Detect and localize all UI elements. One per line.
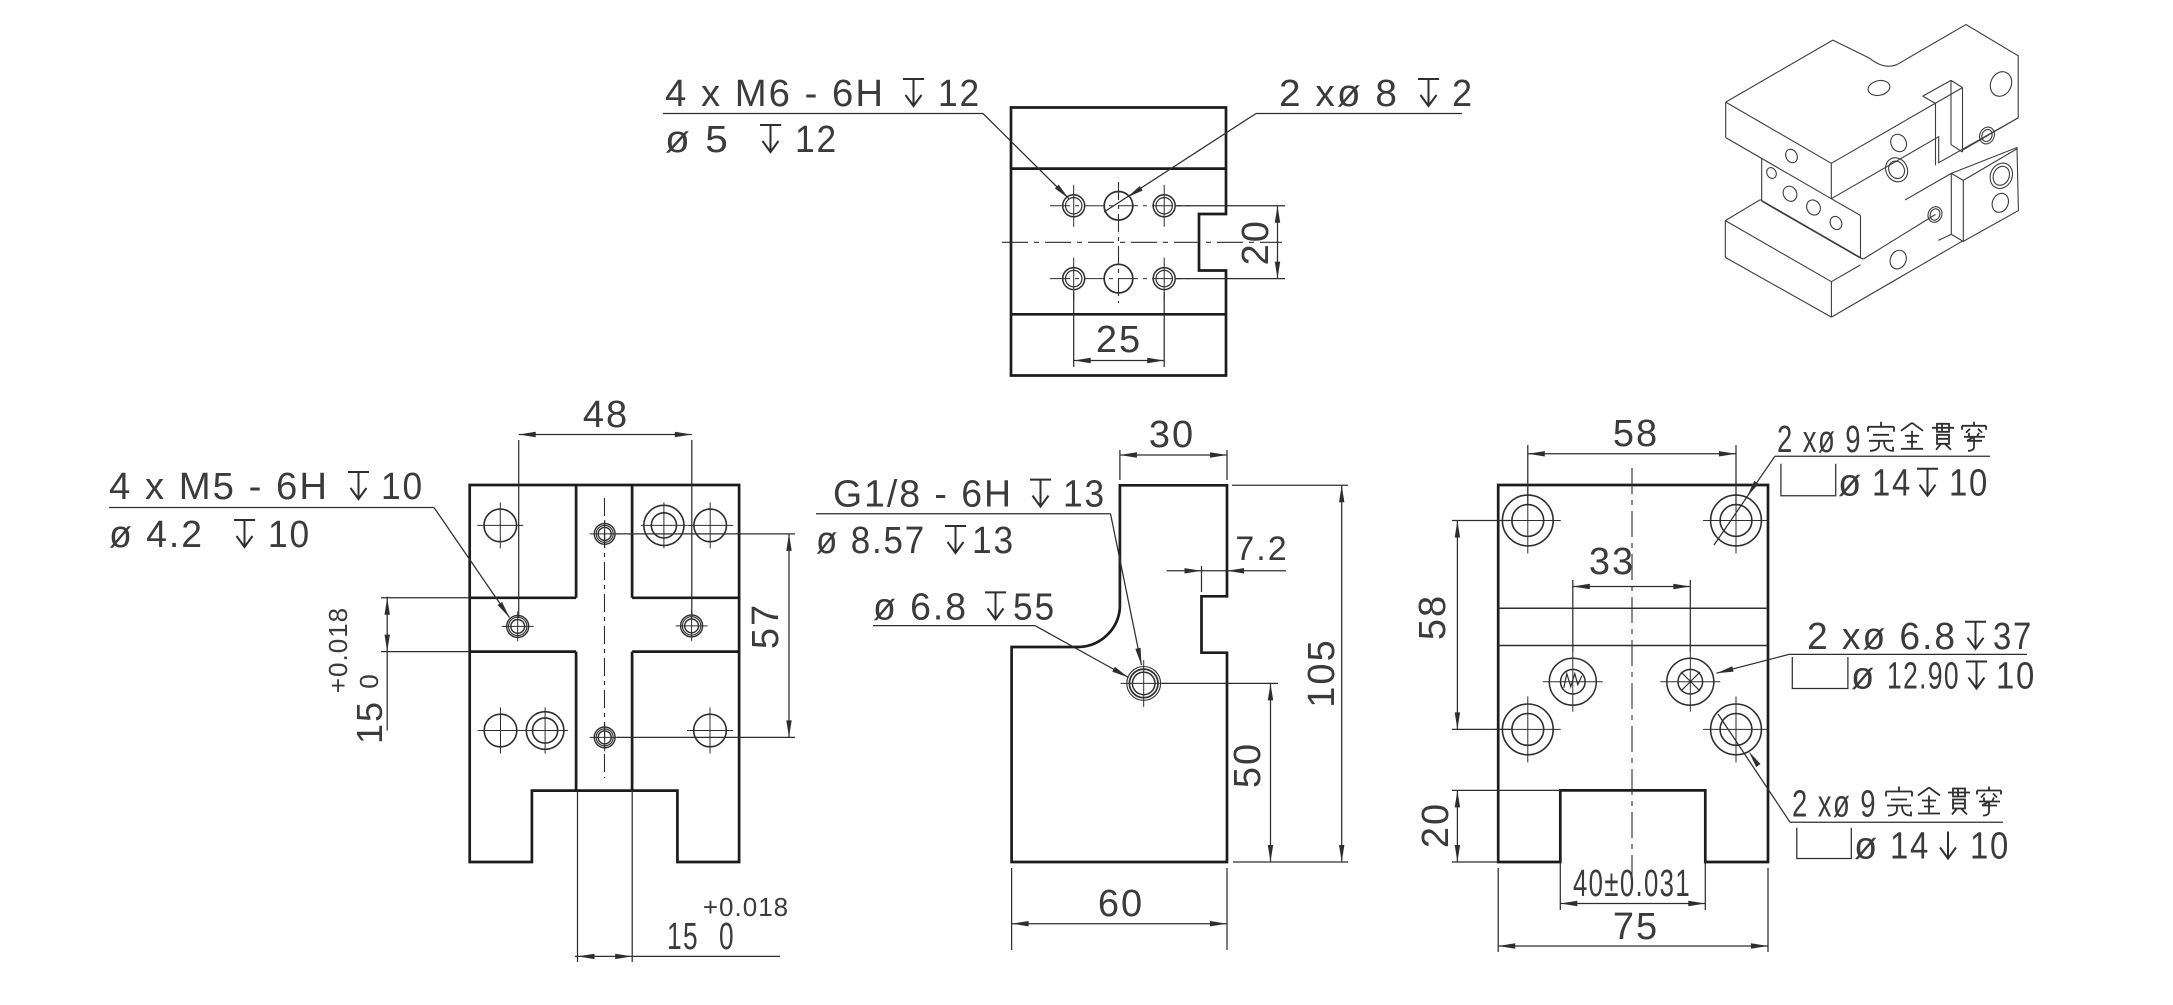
4 x M6 tapped holes (outer+inner circles)	[1063, 195, 1085, 217]
dimension 33	[1572, 580, 1574, 652]
vertical centerline	[1631, 468, 1633, 880]
row1 centerline	[1050, 205, 1190, 207]
side profile outline with fillet	[1012, 485, 1227, 862]
svg-text:50: 50	[1227, 742, 1269, 788]
svg-text:13: 13	[1063, 474, 1106, 516]
M6 tapped hole centermark	[1073, 185, 1075, 227]
dimension 48	[518, 440, 520, 618]
svg-text:33: 33	[1589, 541, 1635, 583]
svg-text:ø 5: ø 5	[665, 119, 730, 161]
svg-text:ø: ø	[1854, 826, 1879, 868]
slide step edge lower	[1498, 645, 1768, 647]
4 x M5 tapped holes in grooves	[517, 611, 519, 641]
svg-text:0: 0	[719, 916, 735, 958]
dimension 15 +0.018/0 groove width	[381, 597, 470, 599]
counterbore hole bottom-right block	[709, 708, 711, 754]
svg-text:13: 13	[972, 520, 1015, 562]
svg-text:37: 37	[1993, 616, 2033, 658]
dimension 58 top	[1527, 445, 1529, 505]
dimension 30	[1119, 450, 1121, 480]
2 x dia8 dowel holes	[1104, 192, 1133, 221]
svg-text:20: 20	[1415, 802, 1457, 848]
2 x dia6.8 threaded holes	[1572, 652, 1574, 712]
svg-text:4 x M6 - 6H: 4 x M6 - 6H	[665, 73, 885, 115]
svg-text:20: 20	[1235, 219, 1277, 265]
svg-text:55: 55	[1013, 586, 1056, 628]
svg-text:10: 10	[1970, 826, 2010, 868]
dimension 20	[1176, 205, 1285, 207]
svg-text:+0.018: +0.018	[703, 892, 789, 922]
row2 centerline	[1050, 278, 1190, 280]
dimension 57	[616, 533, 795, 535]
dimension 15 +0.018/0 bottom slot	[577, 791, 579, 962]
svg-text:12.90: 12.90	[1887, 656, 1960, 698]
svg-text:10: 10	[381, 466, 424, 508]
vertical centerline middle holes	[1118, 182, 1120, 303]
slide step edge upper	[1498, 607, 1768, 609]
svg-text:ø: ø	[1851, 656, 1876, 698]
svg-text:ø 6.8: ø 6.8	[873, 586, 968, 628]
svg-text:30: 30	[1149, 414, 1195, 456]
dimension 75	[1497, 868, 1499, 952]
dimension 40 plus-minus 0.031	[1559, 862, 1561, 910]
counterbore hole top-left block	[499, 502, 501, 548]
svg-text:2: 2	[1452, 73, 1474, 115]
M6 tapped hole centermark	[1073, 258, 1075, 300]
svg-text:57: 57	[745, 603, 787, 649]
svg-text:48: 48	[583, 394, 629, 436]
dimension 50	[1162, 682, 1278, 684]
svg-text:2 xø 9: 2 xø 9	[1777, 419, 1862, 461]
horizontal centerline	[1002, 241, 1282, 243]
svg-text:12: 12	[938, 73, 981, 115]
svg-text:15: 15	[667, 916, 699, 958]
counterbore symbol	[1797, 828, 1852, 859]
svg-text:58: 58	[1412, 594, 1454, 640]
svg-text:14: 14	[1890, 826, 1930, 868]
svg-text:ø 8.57: ø 8.57	[816, 520, 926, 562]
M6 tapped hole centermark	[1163, 258, 1165, 300]
counterbore symbol	[1792, 657, 1848, 689]
dimension 60	[1011, 868, 1013, 950]
right view outline	[1498, 485, 1768, 862]
top view upper face edge	[1011, 167, 1226, 170]
dimension 58 left	[1452, 520, 1512, 522]
svg-text:75: 75	[1613, 906, 1659, 948]
svg-text:2 xø 8: 2 xø 8	[1279, 73, 1399, 115]
dimension 25	[1073, 292, 1075, 367]
horizontal groove walls	[470, 596, 576, 599]
svg-text:ø: ø	[1838, 463, 1863, 505]
svg-text:7.2: 7.2	[1235, 530, 1288, 568]
thread cross in right dia6.8 hole	[1681, 672, 1700, 691]
svg-text:105: 105	[1301, 638, 1343, 707]
svg-text:60: 60	[1098, 883, 1144, 925]
svg-text:58: 58	[1613, 413, 1659, 455]
svg-text:25: 25	[1096, 319, 1142, 361]
top view lower face edge	[1011, 313, 1226, 316]
svg-text:G1/8 - 6H: G1/8 - 6H	[833, 474, 1013, 516]
top view outline	[1011, 108, 1226, 376]
svg-text:ø 4.2: ø 4.2	[109, 514, 204, 556]
dimension 7.2	[1201, 566, 1203, 592]
svg-text:10: 10	[1996, 656, 2036, 698]
M6 tapped hole centermark	[1163, 185, 1165, 227]
front view outline	[470, 485, 739, 862]
vertical groove walls	[575, 485, 578, 598]
dimension 20 lower left	[1452, 789, 1560, 791]
svg-text:14: 14	[1872, 463, 1912, 505]
svg-text:12: 12	[795, 119, 838, 161]
counterbore hole pair bottom-left block	[500, 708, 502, 754]
svg-text:2 xø 9: 2 xø 9	[1792, 784, 1877, 826]
dimension 105	[1232, 484, 1348, 486]
groove centerline	[604, 498, 606, 778]
svg-text:0: 0	[354, 673, 384, 688]
svg-text:+0.018: +0.018	[323, 607, 353, 693]
svg-text:2 xø 6.8: 2 xø 6.8	[1807, 616, 1957, 658]
svg-text:15: 15	[349, 700, 390, 744]
counterbore symbol	[1781, 464, 1836, 496]
svg-text:40±0.031: 40±0.031	[1573, 863, 1691, 905]
svg-text:4 x M5 - 6H: 4 x M5 - 6H	[109, 466, 329, 508]
4 x dia9/dia14 counterbore holes	[1527, 488, 1529, 554]
svg-text:10: 10	[268, 514, 311, 556]
counterbore hole pair top-right block	[663, 502, 665, 548]
iso holes (ellipses)	[1725, 25, 2018, 318]
svg-text:10: 10	[1949, 463, 1989, 505]
G1/8 port hole	[1143, 660, 1145, 707]
